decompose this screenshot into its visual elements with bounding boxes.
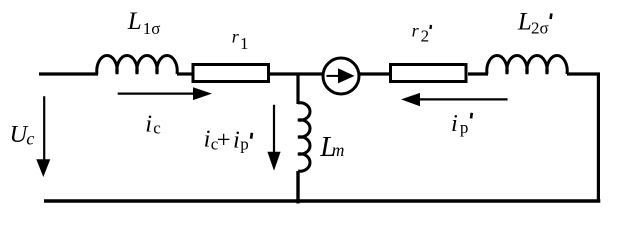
wire: current source to r2'	[359, 72, 391, 75]
wire: top-left segment from input to L1σ	[39, 72, 98, 75]
current arrow ip' (left)	[419, 98, 508, 100]
svg-text:ic+ip: ic+ip	[204, 126, 249, 154]
inductor L2σ' coil	[487, 55, 567, 74]
wire: bottom return	[44, 199, 600, 202]
inductor Lm coil (vertical)	[298, 103, 310, 171]
current arrow ic (right)	[118, 92, 194, 94]
svg-text:r1: r1	[232, 26, 249, 53]
svg-text:r2: r2	[412, 20, 430, 45]
svg-text:ic: ic	[145, 111, 161, 138]
current arrow ic+ip' (down into magnetizing branch)	[273, 105, 275, 154]
wire: magnetizing branch lower segment	[296, 171, 299, 204]
svg-text:L2σ: L2σ	[517, 8, 549, 37]
current source circle	[323, 58, 359, 94]
resistor r1	[193, 65, 269, 82]
svg-text:Lm: Lm	[319, 132, 344, 163]
svg-text:ip: ip	[451, 110, 468, 137]
inductor L1σ coil	[97, 55, 177, 74]
wire: magnetizing branch upper segment from node A	[296, 73, 299, 105]
wire: L2σ' to top-right corner and down right side	[567, 74, 598, 201]
voltage arrow Uc (down)	[43, 96, 45, 161]
resistor r2'	[391, 65, 467, 82]
svg-text:L1σ: L1σ	[127, 8, 161, 38]
wire: r1 to current source, through node A	[270, 72, 323, 75]
svg-text:Uc: Uc	[10, 121, 35, 148]
wire: L1σ to r1	[177, 72, 193, 75]
current source inner arrow	[327, 75, 340, 77]
wire: r2' to L2σ'	[468, 72, 488, 75]
